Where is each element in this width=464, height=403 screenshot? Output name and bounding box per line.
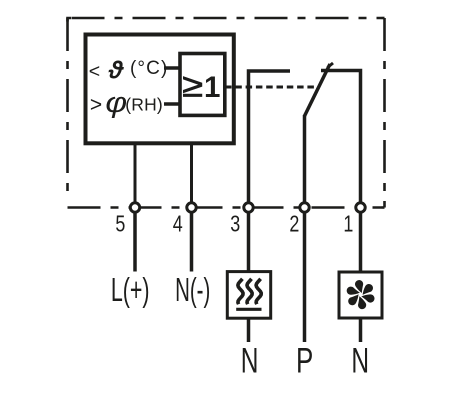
enclosure boundary corner tick top-left [68, 18, 72, 22]
svg-text:N(-): N(-) [175, 271, 210, 308]
svg-text:L(+): L(+) [111, 271, 150, 308]
svg-text:P: P [296, 340, 313, 380]
svg-text:1: 1 [204, 71, 220, 104]
svg-text:3: 3 [230, 211, 240, 237]
terminal 2 [300, 203, 309, 212]
sensor unit box [86, 35, 234, 144]
enclosure boundary right edge [383, 18, 386, 208]
wire below terminal 4 [190, 214, 194, 272]
wire terminal 3 up to NC contact [249, 71, 291, 202]
wire sensor box to terminal 4 [190, 143, 193, 202]
wire humidity input to OR gate [164, 102, 180, 106]
terminal 4 [187, 203, 196, 212]
OR gate U1 box [180, 54, 225, 116]
device enclosure dashed boundary [68, 17, 385, 20]
enclosure boundary left edge [66, 18, 69, 201]
enclosure boundary bottom edge [68, 206, 385, 209]
svg-text:4: 4 [173, 211, 183, 237]
wire fan to N [359, 318, 363, 342]
svg-text:5: 5 [115, 211, 125, 237]
wire terminal 2 up to relay pivot [303, 115, 307, 202]
heater element bar [236, 308, 261, 311]
wire temperature input to OR gate [164, 66, 180, 70]
heater wave 3 [256, 279, 261, 304]
fan load box [339, 272, 382, 318]
relay switch lever [305, 64, 331, 116]
heater wave 1 [238, 279, 243, 304]
heater wave 2 [247, 279, 252, 304]
svg-text:(RH): (RH) [125, 94, 163, 114]
wire terminal 1 to fan [359, 214, 363, 273]
relay lever tip barb [328, 63, 334, 68]
svg-text:N: N [351, 342, 369, 380]
dashed control link from OR gate to relay lever [225, 86, 318, 89]
terminal 5 [130, 203, 139, 212]
wire terminal 3 to heater [247, 214, 251, 272]
wire sensor box to terminal 5 [134, 143, 137, 202]
svg-text:(°C): (°C) [130, 58, 168, 79]
wire heater to N [247, 318, 251, 342]
svg-text:2: 2 [289, 211, 299, 237]
terminal 3 [244, 203, 253, 212]
fan impeller [344, 278, 377, 311]
svg-text:φ: φ [105, 86, 127, 118]
terminal 1 [356, 203, 365, 212]
svg-text:1: 1 [343, 211, 353, 237]
svg-text:≥: ≥ [182, 67, 203, 104]
svg-text:ϑ: ϑ [108, 56, 125, 84]
heater load box [227, 272, 270, 319]
svg-text:>: > [90, 93, 102, 116]
wire terminal 2 to P [303, 214, 307, 343]
svg-text:N: N [241, 342, 259, 380]
wire terminal 1 up to NO contact [321, 71, 361, 203]
svg-text:<: < [89, 61, 100, 83]
wire below terminal 5 [133, 214, 137, 272]
